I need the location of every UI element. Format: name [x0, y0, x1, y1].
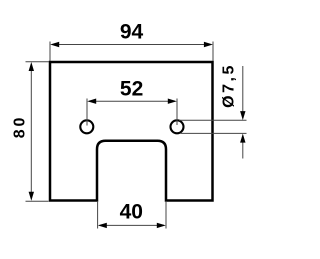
- svg-text:80: 80: [12, 115, 29, 138]
- dim 52: dimension line: [89, 100, 175, 102]
- dim d7.5: lower dimension line: [242, 137, 244, 159]
- svg-text:94: 94: [120, 21, 144, 44]
- dim 94: right extension line: [212, 42, 214, 62]
- dim 40: right arrow: [157, 223, 166, 228]
- dim 40: dimension line: [100, 224, 165, 226]
- dim d7.5: upper dimension line: [242, 66, 244, 118]
- dim 52: right extension line: [176, 99, 178, 126]
- dim 94: left arrow: [50, 42, 59, 47]
- svg-text:52: 52: [120, 77, 143, 100]
- dim 40: left arrow: [98, 223, 107, 228]
- dim 40: right extension line: [165, 202, 167, 229]
- dim 80: dimension line: [30, 64, 32, 199]
- dim d7.5: bottom tangent leader: [181, 132, 247, 134]
- dim 52: right arrow: [168, 99, 177, 104]
- plate outline with bottom notch: [50, 62, 213, 201]
- dim 94: right arrow: [204, 42, 213, 47]
- dim 52: left arrow: [87, 99, 96, 104]
- svg-text:Ø7,5: Ø7,5: [220, 63, 237, 108]
- dim d7.5: down arrow: [240, 111, 245, 120]
- dim 80: bottom extension line: [26, 200, 49, 202]
- hole right: [171, 120, 184, 133]
- hole left: [80, 120, 93, 133]
- dim 94: dimension line: [52, 44, 211, 46]
- dim 52: left extension line: [86, 99, 88, 126]
- dim d7.5: up arrow: [240, 134, 245, 143]
- dim 80: top arrow: [29, 62, 34, 71]
- dim d7.5: top tangent leader: [179, 119, 247, 121]
- dim 80: bottom arrow: [29, 192, 34, 201]
- dim 80: top extension line: [26, 61, 50, 63]
- dim 94: left extension line: [49, 42, 51, 62]
- svg-text:40: 40: [120, 200, 143, 223]
- dim 40: left extension line: [97, 202, 99, 229]
